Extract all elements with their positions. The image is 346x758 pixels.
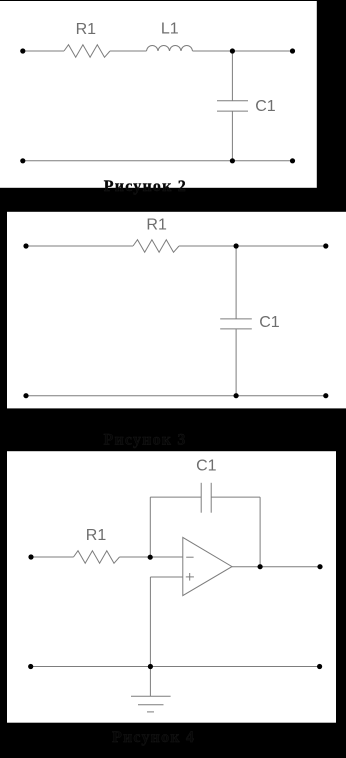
svg-text:Рисунок 2: Рисунок 2 bbox=[104, 178, 187, 195]
svg-text:R1: R1 bbox=[86, 527, 107, 544]
svg-text:C1: C1 bbox=[255, 98, 276, 115]
svg-text:C1: C1 bbox=[196, 458, 217, 475]
svg-text:C1: C1 bbox=[259, 314, 280, 331]
svg-text:Рисунок 3: Рисунок 3 bbox=[104, 432, 187, 449]
svg-text:Рисунок 4: Рисунок 4 bbox=[112, 729, 195, 746]
svg-text:L1: L1 bbox=[161, 21, 179, 38]
svg-text:R1: R1 bbox=[76, 21, 97, 38]
svg-text:R1: R1 bbox=[146, 216, 167, 233]
